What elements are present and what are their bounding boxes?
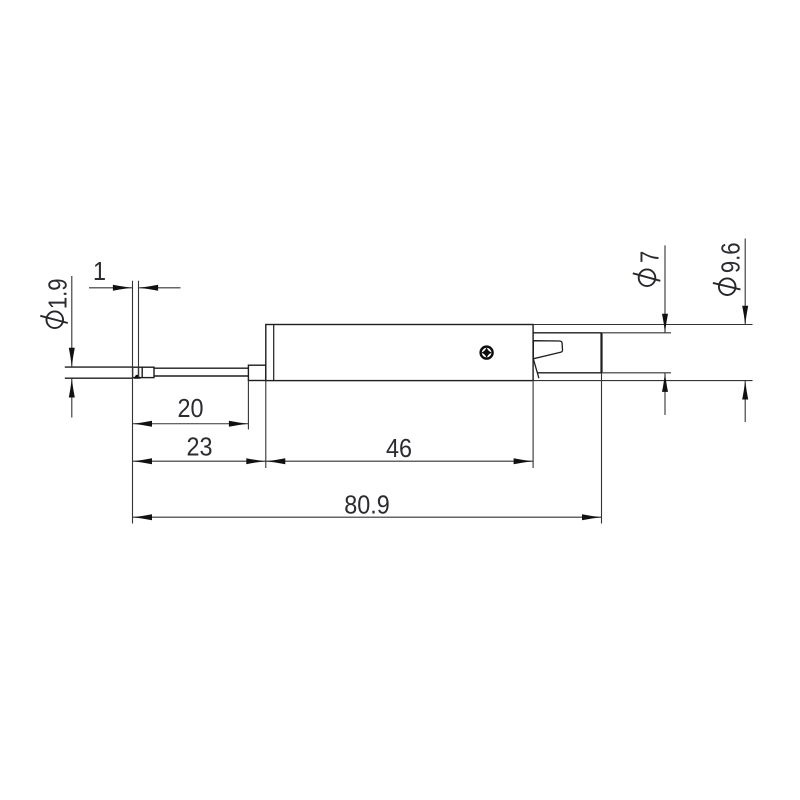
screw head cross (482, 348, 490, 356)
dimension 20 arrows (133, 421, 152, 427)
dimension Ø9.6 arrows (742, 306, 748, 325)
extension line I (Ø9.6 top) (533, 324, 752, 326)
main body (Ø9.6 x 46) (266, 325, 533, 381)
extension line G (Ø7 top) (602, 332, 672, 334)
extension line D (x=265.8 body face) (265, 381, 267, 468)
latch detail (533, 341, 562, 359)
extension line A (x=132.5 disc left) (132, 281, 134, 524)
dimension Ø9.6 diameter symbol (713, 278, 741, 295)
dimension Ø9.6 line (744, 239, 746, 423)
svg-text:80.9: 80.9 (344, 491, 390, 519)
screw head ring (481, 347, 493, 359)
dimension 23 arrows (133, 458, 152, 464)
dimension Ø1.9 arrows (69, 348, 75, 367)
svg-text:46: 46 (386, 435, 412, 463)
dimension 46 arrows (266, 458, 285, 464)
extension line H (Ø7 bottom) (602, 372, 672, 374)
svg-text:1: 1 (93, 258, 106, 286)
extension line F (x=601.5 connector end) (601, 373, 603, 524)
svg-text:20: 20 (177, 395, 203, 423)
svg-text:1.9: 1.9 (44, 278, 73, 309)
dimension 23 line (133, 460, 266, 462)
extension line C (x=248.4 bushing) (247, 381, 249, 430)
latch diagonal (533, 359, 539, 378)
bushing (248, 365, 265, 380)
dimension 20 line (133, 423, 249, 425)
extension line J (Ø9.6 bottom) (533, 380, 752, 382)
dimension Ø1.9 line (71, 276, 73, 418)
dimension Ø7 diameter symbol (633, 269, 661, 286)
dimension 46 line (266, 460, 533, 462)
svg-text:9.6: 9.6 (717, 242, 746, 273)
dimension 80.9 line (133, 516, 602, 518)
tip rod (probe needle, Ø1.9) (65, 367, 133, 378)
thin shaft (154, 368, 248, 376)
dimension 1 arrows (113, 285, 132, 291)
collar (1mm disc and step) (133, 367, 154, 377)
extension line E (x=533.1 body rear) (532, 381, 534, 468)
dimension 80.9 arrows (133, 514, 152, 520)
bump mark at collar bottom (134, 375, 141, 379)
body front inner edge (273, 325, 275, 381)
svg-text:7: 7 (636, 251, 665, 263)
extension line B (x=138.5 disc right) (138, 281, 140, 378)
svg-text:23: 23 (186, 433, 212, 461)
dimension 1 line (89, 287, 181, 289)
dimension Ø7 line (664, 245, 666, 415)
connector section (Ø7) (533, 333, 601, 373)
dimension Ø7 arrows (662, 314, 668, 333)
dimension Ø1.9 diameter symbol (40, 311, 68, 328)
